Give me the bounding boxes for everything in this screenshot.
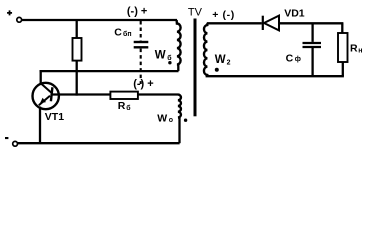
- svg-text:W: W: [155, 50, 166, 62]
- svg-text:R: R: [350, 42, 358, 54]
- svg-text:ф: ф: [295, 56, 301, 63]
- svg-text:VT1: VT1: [45, 111, 64, 123]
- svg-text:н: н: [358, 47, 362, 54]
- svg-text:W: W: [157, 113, 167, 125]
- svg-text:б: б: [126, 104, 131, 112]
- svg-text:W: W: [215, 54, 226, 66]
- svg-text:R: R: [118, 100, 126, 112]
- svg-text:VD1: VD1: [284, 8, 305, 20]
- svg-text:+ (-): + (-): [212, 9, 235, 21]
- svg-text:TV: TV: [188, 7, 203, 19]
- svg-text:(-) +: (-) +: [133, 78, 153, 90]
- svg-text:б: б: [167, 54, 172, 62]
- svg-text:C: C: [286, 53, 294, 65]
- svg-text:бп: бп: [123, 30, 132, 38]
- svg-text:C: C: [114, 26, 122, 38]
- svg-text:о: о: [169, 117, 173, 124]
- svg-text:2: 2: [227, 59, 231, 66]
- svg-text:(-) +: (-) +: [127, 6, 147, 18]
